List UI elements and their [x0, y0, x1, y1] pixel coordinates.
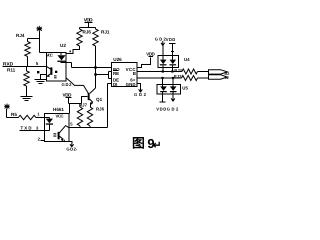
svg-text:62: 62 — [225, 76, 229, 80]
wire top bracket — [80, 28, 96, 30]
wire pin2 stub — [41, 140, 45, 142]
svg-text:VCC: VCC — [46, 52, 53, 57]
wire bottom bus to DI — [76, 84, 112, 128]
wire A line — [137, 77, 182, 79]
resistor RJ4 — [16, 33, 30, 57]
svg-text:U5: U5 — [182, 86, 188, 91]
svg-text:R11: R11 — [7, 68, 16, 73]
power VDD under U5 — [156, 102, 166, 112]
junction RE-DE/column — [94, 73, 96, 75]
node TXD / wire TXD — [20, 126, 45, 131]
svg-text:RJ6: RJ6 — [96, 107, 105, 112]
svg-text:VCC: VCC — [56, 114, 64, 119]
junction RO/RJ1 — [94, 66, 96, 68]
wire U2 cathode to RO line — [66, 63, 71, 68]
resistor RJ2 — [174, 68, 197, 74]
LED inside H661 — [45, 118, 50, 119]
phototransistor inside U2 — [50, 67, 52, 74]
LED inside U2 — [60, 53, 62, 56]
wire U2 output to Q1 base — [66, 78, 88, 93]
wire RJ3 to connector — [198, 77, 209, 79]
junction dots TVS bottom — [161, 77, 163, 79]
svg-text:VDD: VDD — [166, 37, 176, 42]
power VDD right of U26 — [146, 51, 155, 56]
wire H661 emitter to GD2 — [69, 142, 72, 144]
ground flag GD2 under U26 — [134, 84, 147, 98]
IC U26 MAX485 — [112, 57, 138, 87]
svg-text:GD2: GD2 — [62, 82, 73, 87]
resistor RJ7 — [77, 102, 87, 125]
wire H661 collector pin — [69, 127, 76, 129]
TVS diode pack U4 — [158, 56, 190, 72]
phototransistor inside H661 — [58, 132, 60, 139]
wire VDD flag down to U2 VCC pin — [40, 52, 47, 54]
ground flag GD2 above U4 — [155, 36, 167, 55]
power VDD above U4 — [166, 37, 176, 56]
svg-text:U26: U26 — [113, 57, 122, 62]
power VDD top middle — [84, 17, 93, 27]
junction dots TVS top — [162, 70, 164, 72]
resistor RJ6 (lower) — [87, 103, 104, 126]
wire RO line — [72, 67, 112, 69]
resistor RJ6 — [77, 29, 92, 46]
svg-text:VDD: VDD — [63, 92, 73, 97]
resistor RJ1 — [93, 29, 110, 46]
wire Q1 base left to RJ7 — [82, 97, 88, 104]
svg-text:RJ2: RJ2 — [174, 68, 182, 73]
wire B line — [137, 71, 182, 73]
wire RJ6 to U2 anode pin — [66, 46, 79, 54]
resistor R5 — [7, 112, 36, 120]
wire R5 to H661 pin1 — [36, 117, 45, 119]
wire VDD to RJ4 top — [28, 38, 40, 40]
power VDD middle — [63, 92, 73, 103]
connector plug pin 1 — [209, 70, 228, 74]
resistor RJ3 — [174, 74, 198, 81]
svg-text:U4: U4 — [184, 57, 190, 62]
ground under U2 — [35, 80, 47, 84]
svg-text:↵: ↵ — [153, 139, 162, 151]
svg-text:VDD: VDD — [146, 51, 155, 56]
svg-text:RJ4: RJ4 — [16, 33, 25, 38]
svg-text:H661: H661 — [53, 107, 64, 112]
svg-text:GND: GND — [126, 82, 136, 87]
transistor Q1 — [88, 88, 103, 105]
wire U2 GND pin to ground — [41, 75, 47, 80]
wire RJ4 bottom to RXD line — [27, 57, 29, 67]
svg-text:DI: DI — [113, 82, 117, 87]
ground flag GD2 under U5 — [167, 97, 179, 111]
optocoupler H661 box — [45, 107, 70, 142]
wire RJ2 to connector — [198, 72, 209, 74]
svg-text:RJ3: RJ3 — [174, 74, 182, 79]
wire RJ1 column down to Q1 collector — [95, 46, 97, 88]
ground under R11 — [21, 97, 33, 101]
wire VCC to VDD — [137, 58, 151, 68]
power flag VDD top-left — [37, 26, 43, 53]
svg-text:GD2: GD2 — [134, 92, 147, 97]
power flag left-bottom — [4, 104, 9, 118]
resistor R11 pulldown — [7, 67, 29, 98]
svg-text:B: B — [133, 71, 136, 76]
svg-text:TXD: TXD — [21, 126, 32, 131]
junction dot on RXD line — [37, 71, 39, 73]
svg-text:U2: U2 — [60, 43, 66, 48]
op-amp U2 optocoupler box — [46, 43, 66, 81]
svg-text:GD2: GD2 — [167, 106, 179, 111]
TVS diode pack U5 — [157, 78, 188, 102]
svg-text:RJ1: RJ1 — [101, 30, 110, 35]
svg-text:Q1: Q1 — [96, 97, 103, 102]
wire VDD branch — [69, 104, 82, 114]
svg-text:R5: R5 — [11, 112, 17, 117]
svg-text:RJ6: RJ6 — [83, 30, 92, 35]
pin 1 tick U2 — [70, 50, 71, 52]
svg-text:RE: RE — [113, 71, 119, 76]
ground flag GD2 under H661 — [66, 143, 77, 151]
node RXD / wire RXD input line — [3, 62, 47, 68]
connector plug pin 2 — [209, 75, 228, 80]
wire RE/DE tie — [96, 72, 112, 79]
svg-text:图: 图 — [132, 136, 145, 151]
svg-text:VDD: VDD — [156, 106, 166, 111]
svg-text:GD2: GD2 — [155, 36, 167, 41]
